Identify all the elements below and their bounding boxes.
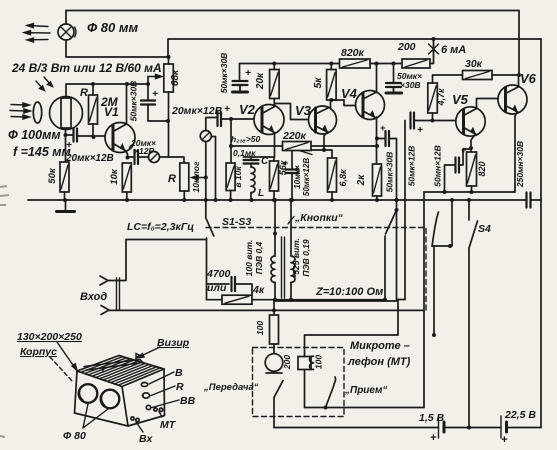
svg-text:24 В/3 Вт или 12 В/60 мА: 24 В/3 Вт или 12 В/60 мА — [11, 61, 162, 75]
wire x396 lower leg — [396, 210, 398, 300]
node 6.8к-rail — [330, 198, 334, 202]
capacitor plates — [232, 277, 236, 291]
switch S2 blade — [386, 210, 397, 234]
node Прием blade — [324, 406, 328, 410]
node cap-rail — [290, 198, 294, 202]
wire V6 emitter — [515, 113, 517, 193]
svg-text:50мк×30В: 50мк×30В — [385, 152, 395, 193]
wire V4 collector — [376, 64, 378, 93]
wire 820 to y192 — [471, 186, 473, 192]
node primary-rail — [273, 198, 277, 202]
node V4 collector — [375, 62, 379, 66]
svg-text:ВВ: ВВ — [180, 395, 196, 407]
trimmer arrow 220к — [299, 151, 312, 155]
wire V1 emitter — [126, 151, 128, 158]
battery 22,5В — [501, 416, 507, 438]
wire jack2 down — [205, 142, 207, 219]
wire V3 emitter — [324, 132, 328, 151]
wire cap stub — [239, 85, 241, 91]
svg-text:220к: 220к — [282, 130, 307, 142]
node 220к-emitter — [375, 144, 379, 148]
node wiper-bus — [146, 82, 150, 86]
ground — [57, 200, 75, 212]
wire L to rail — [250, 193, 252, 201]
capacitor plates — [411, 113, 415, 129]
node wiper junction — [204, 176, 208, 180]
svg-text:4к: 4к — [252, 284, 265, 296]
svg-text:130×200×250: 130×200×250 — [17, 331, 82, 343]
svg-text:30к: 30к — [465, 58, 483, 70]
resistor 2M — [89, 95, 98, 124]
svg-text:f =145 мм: f =145 мм — [13, 145, 71, 159]
wire y63 820к-200 — [370, 63, 402, 65]
wire blade leg x385 — [384, 236, 386, 300]
wire кнопка leg — [432, 200, 452, 246]
wire cap to jack — [138, 156, 149, 158]
svg-text:+: + — [224, 104, 230, 115]
wire x424 return down — [423, 192, 425, 408]
resistor 6,8к — [328, 158, 337, 192]
battery 1,5В — [439, 416, 445, 438]
svg-text:V4: V4 — [341, 86, 358, 101]
wire 4700 branch — [207, 283, 230, 285]
svg-text:Ф 100мм: Ф 100мм — [8, 128, 61, 142]
node input-mic — [272, 308, 276, 312]
wire emitter to bypass cap — [459, 149, 471, 165]
wire S4 lower — [468, 248, 470, 428]
svg-text:10к: 10к — [109, 168, 120, 185]
svg-text:R: R — [168, 173, 176, 185]
microphone 200 Ом — [265, 354, 283, 372]
svg-text:5к: 5к — [313, 77, 324, 89]
svg-text:„Передача“: „Передача“ — [203, 382, 259, 393]
transformer core — [282, 237, 285, 298]
wire secondary top — [290, 200, 292, 256]
svg-text:4700: 4700 — [206, 268, 231, 280]
svg-text:Микроте –: Микроте – — [350, 340, 410, 352]
svg-text:R: R — [80, 87, 88, 99]
wire wiper to y84 — [147, 77, 149, 85]
node V2 base bias — [229, 117, 233, 121]
wire 10к to rail — [126, 192, 128, 200]
wire bias res to rail — [230, 191, 232, 201]
svg-text:V2: V2 — [239, 102, 256, 117]
wire lamp to 68k junction — [66, 40, 168, 57]
wire y299 bus — [207, 299, 386, 301]
wire cap to right vertical — [531, 199, 542, 201]
lens opening 1 — [79, 384, 98, 403]
node x385-y299 — [383, 298, 387, 302]
wire V4 emitter — [376, 117, 378, 164]
wire supply y63 bus — [240, 63, 340, 65]
resistor 820 — [467, 152, 477, 186]
svg-text:1,5 В: 1,5 В — [419, 412, 445, 424]
svg-text:*525 вит.: *525 вит. — [291, 238, 301, 278]
wire y192 return bus — [424, 191, 515, 193]
node bias-220к — [229, 144, 233, 148]
jacks МТ — [154, 408, 163, 412]
wire bypass cap to y192 — [445, 165, 456, 192]
measuring point 6мА asterisk — [429, 43, 439, 56]
wire 2к to rail — [376, 196, 378, 200]
node x215-rail — [214, 198, 218, 202]
svg-text:Ф 80 мм: Ф 80 мм — [87, 20, 138, 35]
svg-text:Вх: Вх — [139, 433, 153, 445]
wire 200 to rail2 — [430, 39, 434, 64]
node bias-rail — [229, 198, 233, 202]
wire V5 collector to V6 base — [477, 99, 498, 109]
node L-rail — [250, 198, 254, 202]
wire V6 collector to rail1 — [518, 11, 520, 76]
node S4-battery — [467, 426, 471, 430]
wire secondary bottom — [290, 283, 292, 300]
node V1 collector — [125, 82, 129, 86]
wire MT bottom — [304, 370, 306, 408]
wire V3 coll to V4 base — [331, 100, 356, 106]
resistor 4,7к — [428, 83, 438, 113]
ground bar 2 — [386, 92, 402, 95]
node lamp-68к — [167, 55, 171, 59]
resistor 820к — [340, 59, 371, 68]
svg-text:h₂₁ₑ>50: h₂₁ₑ>50 — [231, 134, 261, 144]
node V1 emitter — [126, 156, 130, 160]
wire cap to rail — [291, 173, 293, 200]
wire input top to switch — [108, 240, 207, 281]
wire 68к bottom down — [168, 92, 170, 157]
wire emitter to out cap — [377, 138, 386, 140]
wire R to rail — [183, 191, 185, 200]
capacitor plates — [386, 131, 390, 146]
dashed selector line S1-S3 Кнопки — [206, 228, 426, 312]
node decoup2 — [392, 62, 396, 66]
svg-text:50мк×12В: 50мк×12В — [407, 146, 417, 187]
svg-text:LC=f₀=2,3кГц: LC=f₀=2,3кГц — [127, 221, 194, 233]
node bypass-y192 — [443, 190, 447, 194]
svg-text:+: + — [66, 140, 72, 151]
node 5к top — [329, 62, 333, 66]
transistor V4 — [356, 91, 385, 120]
jacks Вх — [131, 417, 139, 422]
resistor 20к — [270, 70, 280, 99]
svg-text:+: + — [283, 158, 289, 168]
node rail-397 — [395, 198, 399, 202]
svg-text:ПЭВ 0,19: ПЭВ 0,19 — [301, 239, 311, 277]
svg-text:100: 100 — [314, 355, 324, 369]
capacitor plates — [456, 158, 460, 173]
svg-text:или: или — [207, 282, 227, 294]
wire 2M bottom to V1 base — [92, 124, 94, 137]
wire 68к top lead — [168, 57, 170, 64]
svg-text:V1: V1 — [104, 105, 119, 119]
wire C top stub — [250, 157, 252, 160]
wire V3 collector — [330, 100, 332, 108]
node V5 emitter — [469, 146, 473, 150]
svg-text:20мк×12В: 20мк×12В — [65, 153, 114, 164]
svg-text:ПЭВ 0,4: ПЭВ 0,4 — [254, 241, 264, 274]
wire V1 collector — [126, 84, 128, 124]
input terminal top — [100, 276, 108, 285]
node secondary-y299 — [289, 298, 293, 302]
resistor 2к — [373, 164, 382, 196]
svg-text:50мк×30В: 50мк×30В — [219, 53, 229, 94]
wire V6 collector lead — [518, 75, 520, 87]
wire V5 base wire — [414, 120, 457, 122]
wire cap2 stub — [393, 87, 395, 92]
node 2M top — [91, 82, 95, 86]
svg-text:6,8к: 6,8к — [338, 169, 348, 187]
transformer primary winding — [271, 256, 275, 282]
svg-text:2к: 2к — [356, 174, 367, 187]
svg-text:6 мА: 6 мА — [441, 44, 466, 56]
wire Прием bus — [305, 407, 425, 409]
wire input bottom long — [109, 309, 424, 311]
wire second rail — [168, 39, 541, 57]
wire cap right to V1 base — [77, 135, 113, 137]
node secondary-rail — [289, 198, 293, 202]
wire V2 bias vertical — [230, 119, 232, 163]
switch Кнопка blade — [432, 212, 439, 246]
jack socket 2 — [200, 131, 211, 142]
lamp Ф80мм — [58, 24, 76, 40]
wire lamp top lead — [65, 11, 67, 25]
svg-text:в 10к: в 10к — [233, 166, 243, 188]
svg-text:V5: V5 — [452, 92, 469, 107]
svg-text:100: 100 — [255, 321, 265, 335]
resistor 200 — [402, 59, 430, 68]
wire emitter to cap — [128, 156, 135, 158]
wire y63 to cap — [239, 64, 241, 82]
node 820-y192 — [470, 190, 474, 194]
node S4-rail — [467, 198, 471, 202]
wire mic bottom bar — [266, 371, 282, 373]
wire jack2 ground leg — [211, 137, 215, 201]
dashed enclosure microphone unit — [253, 348, 345, 417]
node V3 collector V4 base — [329, 98, 333, 102]
wire V2 collector to V3 base — [275, 104, 316, 120]
wire to MT junction — [433, 246, 435, 335]
svg-text:+: + — [245, 68, 251, 79]
node 20к top — [272, 62, 276, 66]
jack socket 1 — [149, 152, 160, 163]
node 4.7к-base — [431, 119, 435, 123]
svg-text:×30В: ×30В — [400, 80, 421, 90]
capacitor plates — [233, 81, 248, 85]
capacitor plates — [527, 193, 531, 208]
node cap-68к — [166, 119, 170, 123]
svg-text:200: 200 — [397, 41, 416, 53]
wire battery bus — [274, 427, 541, 429]
node 50к-rail — [63, 198, 67, 202]
capacitor plates — [286, 170, 299, 174]
svg-text:100 вит.: 100 вит. — [244, 240, 254, 277]
svg-text:10мк×: 10мк× — [293, 165, 302, 189]
svg-text:+: + — [461, 145, 467, 155]
svg-text:Z=10:100 Ом: Z=10:100 Ом — [315, 286, 383, 298]
wire tank top — [244, 156, 275, 158]
svg-text:+: + — [152, 89, 158, 100]
wire 4,7к bottom — [432, 113, 434, 121]
svg-text:200: 200 — [282, 355, 292, 370]
knob В — [141, 383, 147, 387]
wire 100 to mic — [273, 344, 275, 354]
wire 50к to rail — [64, 192, 66, 200]
svg-text:V3: V3 — [295, 103, 312, 118]
svg-text:+: + — [380, 123, 386, 133]
wire cap left — [66, 134, 74, 136]
svg-text:+: + — [417, 125, 423, 136]
switch Прием blade — [326, 377, 336, 408]
flash arrows at photoresistor — [36, 77, 53, 91]
wire 2M top lead — [92, 84, 94, 95]
wire 56к top — [273, 157, 275, 161]
leader lines enclosure — [50, 342, 179, 432]
wire 6,8к to rail — [331, 192, 333, 200]
node V3 emitter — [322, 148, 326, 152]
wire primary top — [274, 200, 276, 256]
wire Передача down — [273, 398, 275, 428]
telephone capsule MT 100 Ом — [298, 356, 314, 369]
wire y63 to cap2 — [393, 64, 395, 84]
transistor V5 — [456, 107, 485, 136]
wire cap to V2 base — [221, 118, 262, 120]
wire 220к right — [311, 145, 377, 147]
wire 4700 right — [235, 284, 252, 295]
lens Ф100мм — [33, 102, 41, 123]
switch Передача blade — [274, 381, 283, 398]
svg-text:4,7к: 4,7к — [436, 88, 446, 107]
lens opening 2 — [101, 390, 120, 409]
svg-text:50к: 50к — [47, 167, 58, 184]
resistor 50к — [60, 162, 69, 192]
resistor 30к — [463, 71, 493, 80]
wire switch lower leg — [206, 238, 208, 300]
wire 30к to V6 collector — [492, 74, 519, 76]
resistor 56к — [270, 161, 279, 191]
svg-text:50мн×12В: 50мн×12В — [433, 145, 443, 186]
resistor в10к — [226, 163, 235, 191]
node switch top — [395, 208, 399, 212]
transformer secondary winding — [291, 256, 295, 282]
wire cap to 68к bottom line — [148, 105, 169, 122]
input terminal bottom — [101, 306, 109, 315]
svg-text:S4: S4 — [478, 223, 491, 235]
svg-text:820к: 820к — [341, 47, 365, 59]
svg-text:+: + — [430, 432, 437, 444]
transistor V1 — [105, 123, 135, 153]
resistor 100 — [270, 315, 279, 344]
svg-text:22,5 В: 22,5 В — [504, 409, 536, 421]
svg-text:R: R — [176, 381, 184, 393]
capacitor plates — [141, 101, 155, 105]
wire emitter left branch — [292, 150, 324, 170]
svg-text:Корпус: Корпус — [20, 346, 57, 358]
svg-text:Визир: Визир — [157, 337, 190, 349]
ground bar — [233, 91, 248, 94]
trimmer wiper arrow 68к — [148, 74, 162, 78]
svg-text:20к: 20к — [255, 72, 266, 90]
knob R — [142, 393, 150, 398]
svg-text:МТ: МТ — [160, 419, 177, 431]
wire emitter right branch — [324, 150, 332, 158]
node jack2-rail — [204, 198, 208, 202]
wire jog — [398, 299, 405, 301]
wire 4,7к top — [433, 75, 463, 83]
svg-text:V6: V6 — [520, 71, 537, 86]
photoresistor R — [50, 97, 83, 130]
node V4 emitter cap — [375, 137, 379, 141]
svg-text:820: 820 — [477, 161, 487, 176]
resistor 68к trimmer — [164, 64, 174, 92]
transistor V6 — [498, 85, 527, 114]
incoming light arrows — [10, 103, 31, 119]
wire photoresistor bottom — [65, 130, 67, 163]
enclosure louvres hatching — [81, 357, 160, 386]
svg-text:С: С — [261, 156, 269, 167]
svg-text:50мк×12В: 50мк×12В — [302, 158, 311, 196]
wire jack2 up to cap — [206, 118, 217, 131]
resistor 5к — [327, 70, 337, 101]
node base junction — [92, 135, 96, 139]
svg-text:Вход: Вход — [80, 291, 107, 303]
resistor 4к — [222, 295, 252, 304]
capacitor plates — [386, 83, 401, 87]
emitted light arrows — [24, 24, 50, 42]
svg-text:+: + — [501, 434, 508, 446]
switch S4 blade — [469, 221, 478, 248]
enclosure 3D sketch корпус — [75, 356, 165, 427]
capacitor plates — [218, 112, 222, 126]
wire out cap down to switch — [389, 139, 397, 211]
node x434-MT — [432, 333, 436, 337]
wire 5к top — [330, 64, 332, 70]
wire MT top to V5 base line — [305, 121, 406, 357]
svg-text:68к: 68к — [170, 69, 181, 86]
node 10к-rail — [125, 198, 129, 202]
transistor V3 — [309, 106, 337, 134]
potentiometer wiper arrow R — [192, 175, 206, 179]
node V4out-rail — [395, 198, 399, 202]
node rail-452 — [450, 198, 454, 202]
wire bus to cap — [147, 84, 149, 101]
wire 20к top lead — [273, 64, 275, 70]
wire jack to R pot — [160, 157, 185, 163]
svg-text:L: L — [258, 188, 264, 199]
node primary-y299 — [273, 298, 277, 302]
wire 56к to rail — [273, 191, 275, 200]
wire S4 upper — [468, 200, 470, 220]
wire 220к left — [231, 145, 283, 147]
wire top rail lamp supply — [66, 10, 519, 12]
svg-text:лефон (МТ): лефон (МТ) — [347, 356, 411, 368]
node R-rail — [182, 198, 186, 202]
wire photoresistor top to y84 bus — [66, 84, 148, 97]
node V6 collector — [517, 73, 521, 77]
scan artifact marks left edge — [0, 186, 9, 437]
switch contact on secondary — [288, 217, 294, 225]
capacitor plates — [244, 160, 259, 164]
wire V5 emitter — [471, 135, 475, 153]
visor rail on top — [84, 354, 143, 373]
svg-text:Ф 80: Ф 80 — [63, 430, 86, 442]
wire bottom common rail — [28, 199, 527, 201]
resistor 220к — [283, 142, 312, 151]
input cable pair — [117, 278, 120, 310]
wire right vertical rail2 to battery — [540, 39, 542, 428]
svg-text:„Прием“: „Прием“ — [344, 385, 387, 396]
node 2к-rail — [375, 198, 379, 202]
wire 20к to V2 collector — [273, 99, 275, 106]
node photoR-cap — [64, 133, 68, 137]
